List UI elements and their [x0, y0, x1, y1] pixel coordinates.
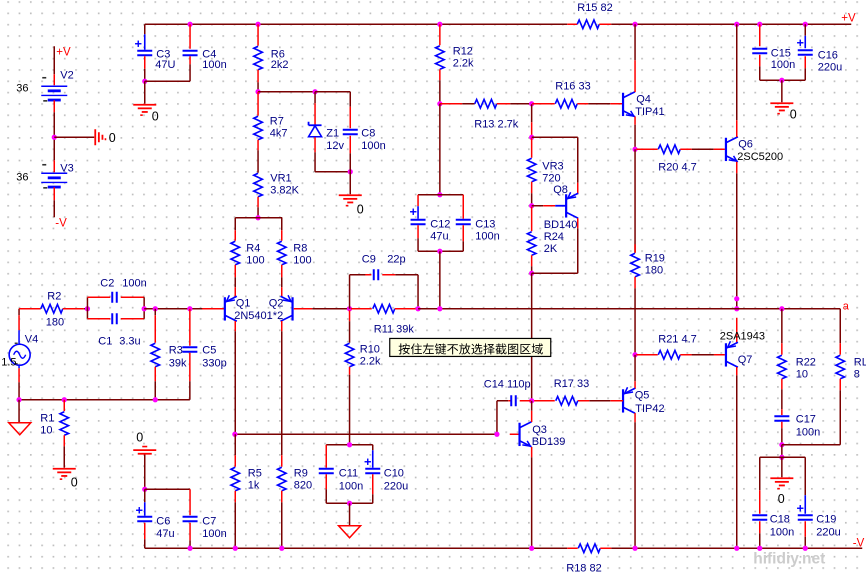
svg-text:3.82K: 3.82K — [270, 184, 299, 196]
svg-text:180: 180 — [645, 264, 663, 276]
svg-text:R24: R24 — [544, 231, 564, 243]
svg-text:C9: C9 — [362, 253, 376, 265]
svg-text:Q6: Q6 — [738, 138, 753, 150]
svg-text:Q4: Q4 — [636, 93, 651, 105]
svg-text:C13: C13 — [475, 218, 495, 230]
svg-text:C7: C7 — [202, 515, 216, 527]
svg-text:100n: 100n — [361, 140, 385, 152]
svg-text:12v: 12v — [326, 140, 344, 152]
svg-text:100n: 100n — [122, 277, 146, 289]
svg-text:0: 0 — [109, 131, 116, 145]
svg-text:V4: V4 — [25, 333, 38, 345]
svg-text:2N5401*2: 2N5401*2 — [234, 310, 283, 322]
svg-text:C5: C5 — [202, 344, 216, 356]
svg-text:R17 33: R17 33 — [554, 378, 589, 390]
svg-text:V2: V2 — [60, 69, 73, 81]
svg-text:R8: R8 — [293, 242, 307, 254]
svg-text:VR3: VR3 — [542, 160, 563, 172]
svg-text:100n: 100n — [202, 528, 226, 540]
svg-text:R9: R9 — [294, 467, 308, 479]
svg-text:a: a — [843, 300, 850, 312]
svg-text:+V: +V — [56, 46, 71, 58]
svg-text:-V: -V — [55, 217, 67, 229]
svg-text:C10: C10 — [384, 467, 404, 479]
svg-text:Z1: Z1 — [326, 127, 339, 139]
svg-text:V3: V3 — [60, 162, 73, 174]
svg-text:R22: R22 — [796, 356, 816, 368]
svg-text:10: 10 — [40, 424, 52, 436]
svg-text:Q2: Q2 — [269, 297, 284, 309]
svg-text:10: 10 — [796, 368, 808, 380]
svg-text:8: 8 — [854, 368, 860, 380]
svg-text:2K: 2K — [544, 243, 558, 255]
svg-text:2SA1943: 2SA1943 — [720, 330, 765, 342]
svg-text:Q5: Q5 — [635, 389, 650, 401]
svg-text:C2: C2 — [100, 277, 114, 289]
svg-text:C16: C16 — [818, 49, 838, 61]
svg-text:R12: R12 — [453, 45, 473, 57]
svg-text:R5: R5 — [248, 467, 262, 479]
svg-text:100n: 100n — [339, 480, 363, 492]
svg-text:220u: 220u — [384, 480, 408, 492]
svg-text:C19: C19 — [816, 513, 836, 525]
svg-text:820: 820 — [294, 479, 312, 491]
svg-text:100n: 100n — [771, 59, 795, 71]
svg-text:220u: 220u — [816, 526, 840, 538]
svg-text:C1: C1 — [98, 335, 112, 347]
svg-text:R4: R4 — [246, 242, 260, 254]
svg-text:R21 4.7: R21 4.7 — [658, 333, 697, 345]
svg-text:0: 0 — [136, 430, 143, 444]
svg-text:36: 36 — [16, 82, 28, 94]
svg-text:+V: +V — [841, 12, 856, 24]
svg-text:C17: C17 — [796, 413, 816, 425]
svg-text:R7: R7 — [270, 115, 284, 127]
svg-text:R20 4.7: R20 4.7 — [658, 161, 697, 173]
svg-text:VR1: VR1 — [270, 172, 291, 184]
svg-text:BD140: BD140 — [544, 219, 578, 231]
svg-text:330p: 330p — [202, 357, 226, 369]
svg-text:R2: R2 — [47, 290, 61, 302]
svg-text:R16 33: R16 33 — [555, 80, 590, 92]
svg-text:RL: RL — [854, 356, 866, 368]
svg-text:1k: 1k — [248, 479, 260, 491]
svg-text:0: 0 — [778, 492, 785, 506]
svg-text:R13 2.7k: R13 2.7k — [474, 118, 519, 130]
svg-text:R15 82: R15 82 — [577, 2, 612, 14]
svg-text:C14 110p: C14 110p — [484, 378, 531, 390]
svg-text:TIP41: TIP41 — [635, 106, 664, 118]
svg-text:R11 39k: R11 39k — [374, 323, 415, 335]
svg-text:2k2: 2k2 — [271, 59, 289, 71]
svg-text:C6: C6 — [156, 515, 170, 527]
svg-text:C15: C15 — [771, 47, 791, 59]
svg-text:BD139: BD139 — [532, 436, 566, 448]
svg-text:R3: R3 — [169, 344, 183, 356]
svg-text:Q1: Q1 — [236, 297, 251, 309]
svg-text:39k: 39k — [169, 357, 187, 369]
svg-text:220u: 220u — [818, 61, 842, 73]
svg-text:R1: R1 — [40, 412, 54, 424]
svg-text:47U: 47U — [155, 59, 175, 71]
svg-text:R18 82: R18 82 — [566, 562, 601, 574]
svg-text:0: 0 — [152, 109, 159, 123]
svg-text:100: 100 — [246, 254, 264, 266]
svg-text:C11: C11 — [339, 467, 358, 479]
svg-text:Q3: Q3 — [532, 424, 547, 436]
svg-text:TIP42: TIP42 — [635, 403, 664, 415]
svg-text:100: 100 — [293, 254, 311, 266]
svg-text:3.3u: 3.3u — [119, 335, 140, 347]
svg-text:Q8: Q8 — [553, 184, 568, 196]
svg-text:100n: 100n — [770, 526, 794, 538]
svg-text:Q7: Q7 — [738, 354, 753, 366]
svg-text:100n: 100n — [796, 426, 820, 438]
svg-text:22p: 22p — [387, 253, 405, 265]
svg-text:0: 0 — [357, 202, 364, 216]
svg-text:47u: 47u — [430, 230, 448, 242]
svg-text:100n: 100n — [475, 230, 499, 242]
svg-text:2.2k: 2.2k — [453, 57, 474, 69]
svg-text:4k7: 4k7 — [270, 127, 288, 139]
svg-text:720: 720 — [542, 172, 560, 184]
svg-text:0: 0 — [790, 107, 797, 121]
svg-text:180: 180 — [46, 316, 64, 328]
svg-text:2.2k: 2.2k — [360, 355, 381, 367]
svg-text:0: 0 — [71, 475, 78, 489]
svg-text:2SC5200: 2SC5200 — [737, 151, 783, 163]
svg-text:hifidiy.net: hifidiy.net — [753, 550, 825, 567]
svg-text:R19: R19 — [645, 252, 665, 264]
svg-text:36: 36 — [16, 171, 28, 183]
svg-text:-V: -V — [853, 537, 865, 549]
svg-text:C12: C12 — [430, 218, 450, 230]
svg-text:C8: C8 — [361, 127, 375, 139]
svg-text:1.5: 1.5 — [1, 356, 16, 368]
svg-text:47u: 47u — [156, 528, 174, 540]
svg-text:C18: C18 — [770, 513, 790, 525]
svg-text:R10: R10 — [360, 343, 380, 355]
svg-text:100n: 100n — [202, 59, 226, 71]
